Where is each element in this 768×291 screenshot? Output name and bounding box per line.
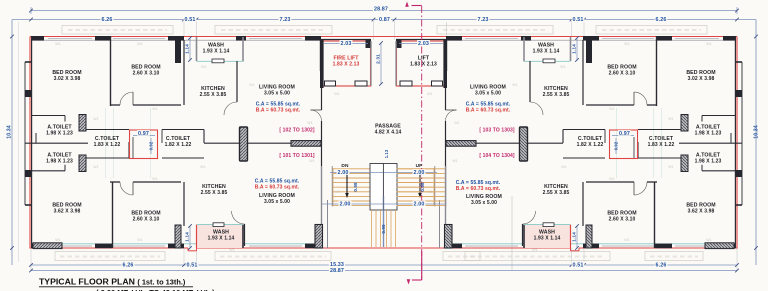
svg-text:B.A = 60.73 sq.mt.: B.A = 60.73 sq.mt. (256, 108, 301, 114)
svg-text:W1: W1 (249, 83, 255, 87)
svg-text:[ 102 TO 1302]: [ 102 TO 1302] (279, 128, 314, 134)
svg-text:1.14: 1.14 (185, 232, 191, 242)
dim 1.14 wash bottom-right (576, 226, 578, 248)
svg-text:2.60 X 3.10: 2.60 X 3.10 (133, 71, 160, 77)
bottom wash walls (524, 225, 571, 248)
faint extension lines (18, 22, 20, 262)
left balcony strip (741, 62, 743, 205)
svg-text:0.87: 0.87 (379, 17, 390, 23)
bedroom2 right wall (183, 40, 185, 105)
top wall inner line (446, 39, 736, 41)
svg-text:3.02 X 3.98: 3.02 X 3.98 (688, 76, 715, 82)
dim 2.03 (399, 43, 443, 45)
svg-text:3.05 x 5.00: 3.05 x 5.00 (264, 199, 290, 205)
dim 1.14 wash top-left (189, 38, 191, 60)
svg-text:W1: W1 (706, 42, 712, 46)
svg-text:[ 101 TO 1301]: [ 101 TO 1301] (279, 153, 314, 159)
C-toilet right box (563, 129, 605, 131)
svg-text:W1: W1 (532, 248, 538, 252)
svg-text:W1: W1 (452, 159, 458, 163)
kitchen-living divider bottom flat (522, 224, 524, 246)
wash left wall (196, 37, 198, 61)
passage west wall (444, 39, 447, 71)
svg-text:W1: W1 (93, 165, 99, 169)
svg-text:6.26: 6.26 (656, 263, 667, 269)
bottom wash walls (197, 225, 244, 248)
svg-text:2.00: 2.00 (338, 170, 349, 176)
svg-text:W1: W1 (137, 42, 143, 46)
svg-text:[ 104 TO 1304]: [ 104 TO 1304] (479, 153, 514, 159)
dim 2.31 between lifts (380, 43, 382, 84)
bottom overall dimension line 28.87 (31, 270, 737, 272)
svg-text:W1: W1 (512, 83, 518, 87)
svg-text:W1: W1 (137, 238, 143, 242)
bedrooms bottom wall top flat (110, 104, 120, 106)
wall piers top (723, 36, 736, 41)
wash left wall (570, 37, 572, 61)
dim 1.14 wash bottom-left (189, 226, 191, 248)
wash right wall (523, 37, 525, 62)
svg-text:1.93 X 1.14: 1.93 X 1.14 (533, 49, 560, 55)
svg-text:1.14: 1.14 (572, 232, 578, 242)
svg-text:6.26: 6.26 (123, 263, 134, 269)
svg-text:0.98: 0.98 (353, 182, 358, 192)
fire lift shaft (322, 41, 371, 86)
svg-text:DN: DN (341, 163, 349, 169)
right half geometry (mirrored) (383, 36, 742, 251)
svg-text:7.23: 7.23 (478, 17, 489, 23)
bottom dimension line segments (31, 264, 737, 266)
svg-text:1.14: 1.14 (185, 44, 191, 54)
dimension labels (373, 6, 389, 12)
wall between bottom bedrooms (112, 182, 114, 248)
svg-text:1.83 X 2.13: 1.83 X 2.13 (410, 62, 437, 68)
svg-text:2.55 X 3.85: 2.55 X 3.85 (200, 92, 227, 98)
kitchen-living divider bottom flat (244, 224, 246, 246)
svg-text:1.93 X 1.14: 1.93 X 1.14 (534, 236, 561, 242)
svg-text:W1: W1 (201, 65, 207, 69)
stair below-grade lines (371, 210, 373, 247)
section marker bottom (412, 279, 422, 281)
corridor pier (520, 127, 528, 161)
svg-text:TYPICAL FLOOR PLAN ( 1st. to 1: TYPICAL FLOOR PLAN ( 1st. to 13th.) (39, 276, 186, 286)
svg-text:W1: W1 (55, 238, 61, 242)
corridor wall thick bar (446, 141, 476, 147)
svg-text:1.83 X 1.22: 1.83 X 1.22 (94, 142, 121, 148)
svg-text:W1: W1 (334, 190, 340, 194)
svg-text:3.05 x 5.00: 3.05 x 5.00 (264, 91, 290, 97)
bottom bedrooms top wall (647, 181, 657, 183)
svg-text:W1: W1 (668, 165, 674, 169)
top dimension line segments (12, 19, 756, 21)
left exterior wall (734, 36, 736, 248)
svg-text:1.93 X 1.14: 1.93 X 1.14 (203, 49, 230, 55)
top wall inner line (31, 39, 321, 41)
A-toilet piers (681, 115, 688, 132)
svg-text:0.97: 0.97 (138, 131, 149, 137)
wash right wall (242, 37, 244, 62)
svg-text:2.60 X 3.10: 2.60 X 3.10 (133, 217, 160, 223)
C-toilet left box (86, 129, 129, 131)
wall piers top (31, 36, 44, 41)
exterior wall red outline (30, 36, 384, 38)
corridor pier (240, 127, 248, 161)
svg-text:W1: W1 (454, 121, 460, 125)
stair landing (383, 164, 397, 211)
svg-text:2.60 X 3.10: 2.60 X 3.10 (609, 217, 636, 223)
svg-text:1.83 X 2.13: 1.83 X 2.13 (333, 62, 360, 68)
svg-text:W1: W1 (229, 248, 235, 252)
svg-text:28.87: 28.87 (330, 268, 344, 274)
svg-text:3.62 X 3.98: 3.62 X 3.98 (688, 209, 715, 215)
kitchen-living divider top flat (236, 61, 238, 102)
duct red box (130, 130, 158, 159)
svg-text:W1: W1 (55, 42, 61, 46)
exterior wall red outline (384, 36, 738, 38)
top dimension line 28.87 (31, 10, 737, 12)
A-toilet walls (31, 115, 65, 117)
left exterior wall (31, 36, 33, 248)
bedrooms bottom wall top flat (647, 104, 657, 106)
C-toilet left box (638, 129, 681, 131)
svg-text:B.A = 60.73 sq.mt.: B.A = 60.73 sq.mt. (255, 185, 300, 191)
bottom bedrooms top wall (110, 181, 120, 183)
door arc kitchen top (224, 102, 237, 115)
svg-text:UP: UP (416, 163, 424, 169)
passage west wall (320, 39, 323, 71)
door arc living entry (446, 110, 457, 121)
lift door jambs (432, 81, 443, 86)
lift shaft mid wall (370, 41, 372, 86)
wall piers bottom (31, 244, 44, 249)
wall between bottom bedrooms (654, 182, 656, 248)
svg-text:2.55 X 3.85: 2.55 X 3.85 (543, 190, 570, 196)
svg-text:W1: W1 (609, 177, 615, 181)
svg-text:1.93 X 1.14: 1.93 X 1.14 (208, 236, 235, 242)
left half geometry (25, 36, 384, 251)
section marker top (412, 5, 422, 7)
dim 2.03 (324, 43, 368, 45)
wash bottom teal line (197, 60, 244, 62)
stair flight treads (397, 168, 434, 170)
dim 0.97 in duct box (133, 135, 155, 137)
svg-text:2.00: 2.00 (414, 202, 425, 208)
svg-text:0.90: 0.90 (381, 224, 386, 234)
svg-text:W1: W1 (427, 92, 433, 96)
stair landing (370, 164, 384, 211)
C-toilet right box (162, 129, 204, 131)
corridor wall to passage (476, 142, 563, 144)
svg-text:2.60 X 3.10: 2.60 X 3.10 (609, 71, 636, 77)
stair below-grade lines (395, 210, 397, 247)
svg-text:10.34: 10.34 (754, 125, 760, 138)
svg-text:W1: W1 (561, 165, 567, 169)
stair dim lines (330, 172, 383, 174)
wash sink (543, 59, 555, 63)
svg-text:W1: W1 (334, 92, 340, 96)
stair flight treads (333, 168, 370, 170)
svg-text:6.26: 6.26 (656, 17, 667, 23)
wash pier (586, 38, 592, 63)
fire lift shaft (397, 41, 446, 86)
svg-text:28.87: 28.87 (374, 7, 388, 13)
svg-text:W1: W1 (668, 117, 674, 121)
svg-text:1.14: 1.14 (572, 44, 578, 54)
left balcony strip (24, 62, 26, 205)
svg-text:0.97: 0.97 (619, 131, 630, 137)
door arc kitchen bottom (523, 211, 536, 224)
svg-text:6.26: 6.26 (102, 17, 113, 23)
corridor wall to passage (204, 142, 291, 144)
door arc living entry (311, 110, 322, 121)
svg-text:3.02 X 3.98: 3.02 X 3.98 (54, 76, 81, 82)
svg-text:2.31: 2.31 (376, 54, 382, 64)
wash sink (212, 59, 224, 63)
svg-text:0.51: 0.51 (187, 263, 198, 269)
left vertical dimension line 10.34 (11, 20, 13, 266)
bottom duct wall (582, 182, 584, 226)
right vertical dimension line 10.34 (755, 20, 757, 266)
svg-text:2.03: 2.03 (418, 41, 429, 47)
svg-text:0.51: 0.51 (573, 17, 584, 23)
duct red box (610, 130, 638, 159)
svg-text:2.55 X 3.85: 2.55 X 3.85 (201, 190, 228, 196)
DN arrow (419, 174, 421, 193)
dim 1.14 wash top-right (576, 38, 578, 60)
svg-text:W1: W1 (200, 165, 206, 169)
kitchen-living divider top flat (529, 61, 531, 102)
ghost bleed-through boxes bottom (55, 252, 165, 261)
svg-text:W1: W1 (560, 65, 566, 69)
stair right flight extension (397, 168, 446, 170)
svg-text:7.23: 7.23 (280, 17, 291, 23)
svg-text:0.92: 0.92 (614, 141, 619, 150)
svg-text:W1: W1 (624, 238, 630, 242)
svg-text:4.82 X 4.14: 4.82 X 4.14 (375, 130, 402, 136)
svg-text:B.A = 60.73 sq.mt.: B.A = 60.73 sq.mt. (456, 186, 501, 192)
DN arrow (346, 174, 348, 193)
planter hatched block bottom-left (33, 243, 62, 249)
A-toilet piers (79, 115, 86, 132)
svg-text:3.05 x 5.00: 3.05 x 5.00 (475, 91, 501, 97)
wall piers bottom (723, 244, 736, 249)
planter hatched block bottom-left (705, 243, 734, 249)
svg-text:0.92: 0.92 (149, 141, 154, 150)
wash pier (175, 38, 181, 63)
svg-text:2.00: 2.00 (414, 170, 425, 176)
bedroom2 right wall (582, 40, 584, 105)
corridor wall thick bar (291, 141, 321, 147)
svg-text:10.34: 10.34 (7, 125, 13, 138)
svg-text:1.98 X 1.23: 1.98 X 1.23 (695, 131, 722, 137)
svg-text:1.82 X 1.22: 1.82 X 1.22 (577, 142, 604, 148)
svg-text:W1: W1 (309, 159, 315, 163)
svg-text:3.62 X 3.98: 3.62 X 3.98 (54, 209, 81, 215)
ghost bleed-through boxes top (62, 26, 173, 35)
lift shaft mid wall (395, 41, 397, 86)
svg-text:1.13: 1.13 (384, 149, 389, 158)
wash bottom teal line (524, 60, 571, 62)
svg-text:1.98 X 1.23: 1.98 X 1.23 (46, 159, 73, 165)
wall between top bedrooms (110, 36, 112, 106)
stair dim lines (384, 172, 437, 174)
svg-text:2.55 X 3.85: 2.55 X 3.85 (543, 92, 570, 98)
svg-text:0.51: 0.51 (185, 17, 196, 23)
svg-text:[ 103 TO 1303]: [ 103 TO 1303] (479, 128, 514, 134)
door arc kitchen top (530, 102, 543, 115)
svg-text:0.98: 0.98 (420, 182, 425, 192)
svg-text:W1: W1 (706, 238, 712, 242)
svg-text:1.82 X 1.22: 1.82 X 1.22 (165, 142, 192, 148)
svg-text:0.51: 0.51 (573, 263, 584, 269)
svg-text:2.03: 2.03 (341, 41, 352, 47)
svg-text:W1: W1 (307, 121, 313, 125)
svg-text:2.00: 2.00 (340, 202, 351, 208)
svg-text:W1: W1 (609, 107, 615, 111)
svg-text:3.05 x 5.00: 3.05 x 5.00 (471, 200, 497, 206)
svg-text:W1: W1 (93, 117, 99, 121)
svg-text:B.A = 60.73 sq.mt.: B.A = 60.73 sq.mt. (466, 108, 511, 114)
wall between top bedrooms (656, 36, 658, 106)
svg-text:W1: W1 (624, 42, 630, 46)
svg-text:1.83 X 1.22: 1.83 X 1.22 (648, 142, 675, 148)
svg-text:W1: W1 (152, 177, 158, 181)
bottom duct wall (183, 182, 185, 226)
svg-text:W1: W1 (152, 107, 158, 111)
lift door jambs (325, 81, 336, 86)
svg-text:1.98 X 1.23: 1.98 X 1.23 (695, 159, 722, 165)
section line A-A (421, 6, 423, 280)
svg-text:1.98 X 1.23: 1.98 X 1.23 (46, 131, 73, 137)
door arc kitchen bottom (232, 211, 245, 224)
A-toilet walls (702, 115, 736, 117)
